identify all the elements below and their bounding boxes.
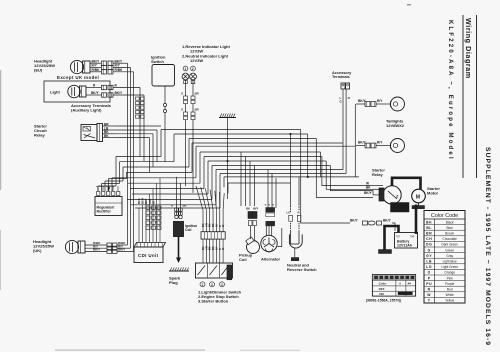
svg-text:1: 1 — [184, 67, 186, 71]
wire: spark plug HT lead — [176, 237, 181, 264]
node: Starter Circuit Relay label — [34, 124, 47, 138]
svg-text:Coil: Coil — [185, 228, 191, 232]
svg-text:O: O — [428, 271, 431, 275]
wire: harness diagonal bundle to handlebar switches — [196, 186, 224, 263]
svg-text:BR: BR — [426, 232, 432, 236]
svg-text:Brown: Brown — [445, 232, 454, 236]
svg-text:2: 2 — [192, 67, 194, 71]
component: alternator — [261, 228, 282, 262]
fuse: main fuse 20A label — [391, 203, 410, 213]
svg-text:Chocolate: Chocolate — [443, 237, 458, 241]
svg-text:P: P — [428, 276, 431, 280]
svg-text:BK/Y: BK/Y — [146, 198, 148, 204]
svg-text:12V3W: 12V3W — [190, 58, 203, 63]
svg-text:BK: BK — [366, 186, 371, 190]
component: spark plug — [169, 268, 189, 286]
ground: starter motor ground — [412, 203, 425, 209]
svg-text:BK/Y: BK/Y — [91, 91, 99, 95]
relay: starter relay — [372, 168, 401, 205]
svg-text:OFF: OFF — [379, 287, 385, 291]
svg-text:BK: BK — [426, 220, 432, 224]
svg-text:SUPPLEMENT - 1995 LATE ~ 1997: SUPPLEMENT - 1995 LATE ~ 1997 MODELS 16-… — [484, 147, 491, 346]
wire: CDI leads up to bus — [139, 178, 160, 243]
svg-text:Y: Y — [272, 203, 274, 207]
svg-text:(UK): (UK) — [33, 248, 42, 253]
svg-text:BK/Y: BK/Y — [350, 219, 358, 223]
node: accessory terminals (right) — [332, 71, 352, 89]
node: CDI lead labels — [139, 197, 155, 204]
headlight EU bulb — [70, 60, 90, 73]
node: handlebar switch connector row — [201, 232, 225, 239]
svg-text:G: G — [181, 108, 183, 112]
headlight UK label — [33, 239, 54, 253]
component: CDI unit — [134, 243, 166, 263]
svg-text:(+): (+) — [411, 234, 415, 238]
svg-text:Rectifier: Rectifier — [97, 210, 112, 214]
wire: headlight EU R/BK lead — [90, 68, 123, 74]
node: part number note — [366, 299, 402, 303]
wire: starter circuit relay BK lead — [103, 130, 117, 134]
svg-text:Alternator: Alternator — [261, 257, 281, 262]
lamp: taillight 1 — [356, 97, 405, 111]
wire: inline diode BK/Y link — [350, 219, 395, 232]
svg-text:Light: Light — [50, 90, 60, 95]
svg-text:3: 3 — [221, 283, 223, 287]
svg-text:G: G — [181, 92, 183, 96]
svg-text:DG: DG — [426, 243, 432, 247]
svg-text:Wiring Diagram: Wiring Diagram — [464, 18, 473, 79]
wire: headlight EU BK/Y lead — [90, 59, 123, 65]
wire: starter circuit relay BK lead — [103, 134, 117, 138]
svg-text:(98081-1556A, 1557#)(: (98081-1556A, 1557#)( — [366, 299, 402, 303]
svg-text:BK/Y: BK/Y — [93, 248, 100, 252]
node: connector column left of ignition — [136, 97, 145, 118]
node: KLF220-A8A Europe Model subtitle (rotated) — [447, 20, 453, 161]
wire: main harness bus lines — [161, 130, 355, 184]
wire: auxiliary light R lead — [86, 84, 140, 90]
motor: starter motor — [412, 186, 441, 203]
svg-text:KLF220-A8A ~, Europe Model: KLF220-A8A ~, Europe Model — [447, 20, 453, 161]
svg-text:W: W — [427, 293, 431, 297]
svg-text:LG: LG — [287, 211, 291, 215]
node: color code table — [424, 211, 465, 304]
svg-text:BL: BL — [426, 226, 432, 230]
wire: starter relay input leads W BK BK/Y — [364, 182, 383, 196]
wire: alternator leads + connectors — [265, 203, 275, 236]
svg-text:Plug: Plug — [169, 280, 178, 285]
svg-text:R: R — [428, 288, 431, 292]
ground: frame ground near indicators — [219, 114, 236, 200]
svg-text:BR: BR — [195, 92, 199, 96]
node: reverse/neutral indicator labels — [182, 44, 230, 63]
node: Accessory Terminals (Auxiliary Light) label — [71, 103, 112, 113]
svg-text:GY: GY — [426, 254, 432, 258]
svg-text:(EU): (EU) — [34, 68, 43, 73]
wire: taillight feed verticals — [354, 104, 356, 177]
headlight auxiliary bulb — [68, 85, 86, 97]
svg-text:BK: BK — [153, 200, 155, 204]
node: taillights label — [386, 119, 405, 129]
svg-text:Coil: Coil — [239, 257, 247, 262]
battery: 12V11Ah — [395, 233, 418, 249]
node: Wiring Diagram heading (rotated) — [464, 18, 473, 79]
wire: regulator leads dashed — [96, 187, 114, 192]
svg-text:LB: LB — [426, 260, 432, 264]
svg-text:Orange: Orange — [444, 271, 455, 275]
svg-text:Switch: Switch — [151, 59, 164, 64]
switch: ignition switch — [151, 55, 175, 87]
svg-text:BK/Y: BK/Y — [118, 248, 125, 252]
node: CDI connector stack — [146, 206, 161, 229]
svg-text:R: R — [171, 204, 173, 208]
lamp: taillight 2 — [356, 139, 405, 153]
node: handlebar wire labels — [202, 223, 225, 250]
wire: thick cable relay to main fuse to battery + — [392, 204, 416, 234]
svg-text:Gray: Gray — [446, 254, 453, 258]
wire: long feed line to starter relay area — [224, 176, 359, 178]
svg-text:Relay: Relay — [34, 133, 45, 138]
svg-text:Color: Color — [379, 282, 388, 286]
wire: thick cable starter relay to starter motor — [392, 178, 421, 190]
svg-text:BK/Y: BK/Y — [383, 219, 391, 223]
svg-text:Reverse Switch: Reverse Switch — [287, 267, 317, 272]
svg-text:W/Y: W/Y — [253, 207, 258, 211]
wire: thick battery negative cable to ground — [385, 226, 399, 250]
lamp: neutral indicator (2) — [190, 66, 197, 80]
svg-text:Y: Y — [265, 203, 267, 207]
svg-text:Light Blue: Light Blue — [443, 260, 457, 264]
svg-text:M: M — [416, 195, 420, 201]
wire: auxiliary light BK/Y lead — [86, 91, 144, 97]
svg-text:Y: Y — [428, 299, 431, 303]
node: switch numbers 1 2 3 — [200, 282, 225, 287]
svg-text:Purple: Purple — [445, 282, 454, 286]
svg-text:BK/Y: BK/Y — [115, 91, 123, 95]
wire: headlight UK R/Y lead — [85, 244, 131, 250]
node: Except UK model box — [44, 81, 110, 102]
svg-text:CDI Unit: CDI Unit — [138, 253, 159, 258]
svg-text:BK: BK — [246, 207, 250, 211]
svg-text:R/BK: R/BK — [92, 68, 100, 72]
svg-text:ON: ON — [379, 292, 384, 296]
svg-text:(-): (-) — [397, 234, 400, 238]
wire: indicator leads with connectors — [181, 80, 199, 193]
wire: headlight parallel feed verticals — [113, 63, 144, 251]
svg-text:Color Code: Color Code — [431, 213, 458, 219]
node: Except UK model label — [57, 75, 99, 80]
wire: sidebar rule right of Wiring Diagram heading — [476, 15, 478, 178]
wire: ignition switch lead with bullet connectors — [163, 86, 166, 162]
component: regulator/rectifier U1 — [95, 186, 122, 216]
svg-text:(Auxiliary Light): (Auxiliary Light) — [71, 108, 102, 113]
svg-text:White: White — [446, 293, 454, 297]
svg-text:Red: Red — [447, 288, 453, 292]
svg-text:Except UK model: Except UK model — [57, 75, 99, 80]
wire: starter circuit relay BR lead — [103, 122, 117, 126]
svg-text:3.Starter Button: 3.Starter Button — [198, 299, 229, 304]
node: SUPPLEMENT 1995 LATE 1997 MODELS 16-9 footer (rotated) — [484, 147, 491, 346]
wire: accessory terminal leads down — [340, 89, 351, 174]
svg-text:BK/W: BK/W — [143, 197, 145, 204]
svg-text:12V8WX2: 12V8WX2 — [386, 123, 405, 128]
svg-text:Green: Green — [445, 248, 454, 252]
svg-text:Light Green: Light Green — [441, 265, 458, 269]
node: ignition switch connection table — [372, 275, 415, 297]
component: ignition coil — [171, 177, 197, 237]
lamp: reverse indicator (1) — [182, 66, 189, 80]
svg-text:R: R — [298, 211, 300, 215]
component: pickup coil — [239, 237, 260, 262]
svg-text:Black: Black — [446, 220, 454, 224]
svg-text:Blue: Blue — [447, 226, 454, 230]
svg-text:BK/R: BK/R — [139, 198, 141, 204]
svg-text:2: 2 — [211, 283, 213, 287]
wire: headlight UK R/BK lead — [85, 241, 128, 247]
wire: headlight EU R/Y lead — [90, 64, 121, 70]
wire: starter circuit relay leads join bus — [116, 126, 161, 172]
svg-text:Yellow: Yellow — [445, 299, 455, 303]
node: junction dots — [226, 133, 291, 162]
svg-text:LG: LG — [426, 265, 432, 269]
svg-text:Y: Y — [268, 203, 270, 207]
wire: starter circuit relay LB lead — [103, 126, 117, 130]
switch: handlebar switch housing — [196, 263, 233, 280]
wire: bus left staircase drops — [161, 130, 228, 209]
svg-text:R/Y: R/Y — [377, 99, 383, 103]
wire: pickup coil leads + connectors — [246, 207, 258, 241]
wire: sidebar rule left of Wiring Diagram heading — [462, 15, 464, 178]
svg-text:BK: BK — [183, 204, 187, 208]
svg-text:1: 1 — [202, 283, 204, 287]
wire: neutral/reverse leads connectors + dashes — [287, 204, 301, 229]
svg-text:CH: CH — [426, 237, 432, 241]
wire: verticals down to CDI/pickup/alternator connectors — [241, 134, 299, 208]
wire: lower-left band to regulator area — [112, 157, 220, 209]
svg-text:BR: BR — [195, 108, 199, 112]
svg-text:Motor: Motor — [427, 191, 439, 196]
relay: starter circuit relay — [81, 124, 103, 142]
headlight UK bulb — [65, 240, 85, 253]
wire: regulator feed corner cluster — [98, 157, 127, 192]
svg-text:Pink: Pink — [447, 276, 454, 280]
svg-text:2.Neutral Indicator Light: 2.Neutral Indicator Light — [182, 54, 229, 59]
node: switch legend — [198, 290, 242, 304]
svg-text:BK/Y: BK/Y — [364, 191, 372, 195]
svg-text:PU: PU — [426, 282, 432, 286]
svg-text:R/BK: R/BK — [115, 68, 123, 72]
svg-text:R/Y: R/Y — [377, 140, 383, 144]
svg-text:Terminals: Terminals — [332, 75, 350, 79]
headlight EU label — [34, 59, 55, 73]
svg-text:Relay: Relay — [372, 172, 383, 177]
svg-text:Dark Green: Dark Green — [441, 243, 458, 247]
svg-text:##: ## — [408, 282, 412, 286]
wire: headlight UK BK/Y lead — [85, 248, 134, 254]
node: Light label — [50, 90, 60, 95]
svg-text:BK: BK — [104, 134, 109, 138]
svg-text:12V11Ah: 12V11Ah — [397, 244, 412, 248]
svg-text:20A: 20A — [392, 208, 399, 212]
switch: neutral and reverse switch — [287, 230, 317, 272]
svg-text:G: G — [428, 248, 431, 252]
ground: battery ground — [379, 250, 392, 254]
wire: bus right corner drops to relay/battery feeds — [301, 130, 373, 224]
